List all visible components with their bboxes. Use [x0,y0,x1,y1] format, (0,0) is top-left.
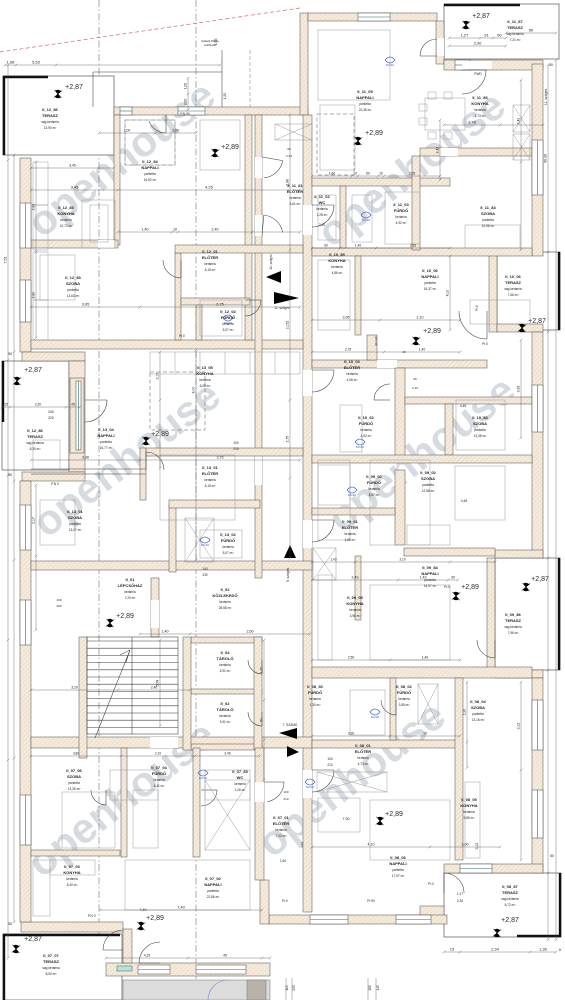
svg-text:50: 50 [8,922,12,926]
svg-text:Pr.0: Pr.0 [282,899,288,903]
svg-text:1,60: 1,60 [329,172,336,176]
svg-text:1,27: 1,27 [457,892,463,896]
svg-text:II_09_02: II_09_02 [420,470,436,475]
svg-text:TERASZ: TERASZ [43,959,60,964]
svg-text:Pr.0: Pr.0 [179,334,185,338]
svg-text:Pr.0: Pr.0 [428,882,434,886]
svg-text:9,86 m²: 9,86 m² [464,816,475,820]
svg-text:KONYHA: KONYHA [63,870,80,875]
svg-text:parketta: parketta [472,712,484,716]
svg-text:II_07_06: II_07_06 [66,768,82,773]
svg-text:2,42: 2,42 [436,147,440,154]
svg-text:3,30: 3,30 [348,732,355,736]
svg-text:NAPPALI: NAPPALI [141,165,158,170]
svg-text:10,73 m²: 10,73 m² [60,224,73,228]
svg-text:II_09_86: II_09_86 [505,612,521,617]
svg-text:3,78: 3,78 [468,120,477,125]
svg-text:FÜRDŐ: FÜRDŐ [394,208,408,213]
svg-text:4,45: 4,45 [460,404,467,408]
svg-text:100: 100 [327,757,333,761]
svg-text:4,73 m²: 4,73 m² [475,114,486,118]
svg-text:II_02: II_02 [221,587,231,592]
svg-text:3,95: 3,95 [82,302,91,307]
svg-text:kerámia: kerámia [289,196,301,200]
svg-text:parketta: parketta [67,288,79,292]
svg-text:2,75: 2,75 [217,456,224,460]
svg-text:+2,87: +2,87 [24,936,42,943]
svg-text:P.N 0: P.N 0 [51,482,59,486]
svg-text:parketta: parketta [482,218,494,222]
svg-text:SZOBA: SZOBA [421,476,435,481]
svg-text:sag.kerámia: sag.kerámia [506,32,524,36]
svg-text:50: 50 [497,33,502,38]
svg-text:II_11_02: II_11_02 [314,194,330,199]
svg-text:140: 140 [202,567,208,571]
svg-text:22,86 m²: 22,86 m² [207,895,220,899]
svg-text:ELŐTÉR: ELŐTÉR [202,471,218,476]
svg-text:kerámia: kerámia [463,810,475,814]
svg-text:II_09_84: II_09_84 [422,565,438,570]
svg-text:5,61 m²: 5,61 m² [290,202,301,206]
svg-text:KONYHA: KONYHA [460,803,477,808]
svg-text:3,93: 3,93 [517,386,521,393]
svg-text:kerámia: kerámia [316,207,328,211]
svg-text:kerámia: kerámia [219,714,231,718]
svg-text:10: 10 [379,172,383,176]
svg-text:22,36 m²: 22,36 m² [359,108,372,112]
svg-text:2,75: 2,75 [216,302,225,307]
svg-text:II_11_87: II_11_87 [507,19,523,24]
svg-text:+2,87: +2,87 [531,576,549,583]
svg-text:kerámia: kerámia [204,478,216,482]
svg-text:II_13_02: II_13_02 [220,532,236,537]
svg-text:SZOBA: SZOBA [67,774,81,779]
svg-text:4,06 m²: 4,06 m² [347,378,358,382]
svg-text:kerámia: kerámia [199,378,211,382]
svg-text:13,63 m²: 13,63 m² [67,294,80,298]
svg-text:II_10_06: II_10_06 [505,274,521,279]
svg-text:ELŐTÉR: ELŐTÉR [355,749,371,754]
svg-text:+2,87: +2,87 [528,318,546,325]
svg-text:NAPPALI: NAPPALI [204,882,221,887]
svg-text:4,67 m²: 4,67 m² [369,493,380,497]
svg-text:9. szöges: 9. szöges [286,567,290,582]
svg-text:II_13_05: II_13_05 [197,365,213,370]
svg-text:II_13_04: II_13_04 [98,427,114,432]
svg-text:SZOBA: SZOBA [68,515,82,520]
svg-text:II_12_83: II_12_83 [58,205,74,210]
svg-text:3,10: 3,10 [399,558,405,562]
svg-text:1,00: 1,00 [184,83,188,89]
svg-text:2,43: 2,43 [352,576,359,580]
svg-text:II_04: II_04 [221,650,231,655]
svg-text:+2,89: +2,89 [221,144,239,151]
svg-text:kerámia: kerámia [153,778,165,782]
svg-text:3,96: 3,96 [82,456,89,460]
svg-text:45: 45 [71,403,75,407]
svg-text:2,10: 2,10 [412,386,418,390]
svg-text:60x40: 60x40 [306,785,315,789]
svg-text:kerámia: kerámia [474,108,486,112]
svg-text:LÉPCSŐHÁZ: LÉPCSŐHÁZ [118,583,143,588]
svg-text:3,80: 3,80 [73,752,79,756]
svg-text:II_08_30: II_08_30 [307,684,323,689]
svg-text:2,55: 2,55 [410,244,416,248]
svg-text:13,26 m²: 13,26 m² [68,787,81,791]
svg-text:kerámia: kerámia [346,372,358,376]
svg-text:1,40: 1,40 [162,630,169,634]
svg-text:NAPPALI: NAPPALI [97,433,114,438]
svg-text:+2,89: +2,89 [423,328,441,335]
svg-text:50: 50 [8,352,12,356]
svg-text:10: 10 [353,172,357,176]
svg-text:7,02 m²: 7,02 m² [276,834,287,838]
svg-text:II_08_06: II_08_06 [390,855,406,860]
svg-text:SZOBA: SZOBA [473,421,487,426]
svg-text:90 240: 90 240 [374,336,378,346]
svg-text:sag.kerámia: sag.kerámia [41,120,59,124]
svg-text:SZOBA: SZOBA [471,705,485,710]
svg-text:115: 115 [285,985,289,990]
svg-text:2,55: 2,55 [409,172,416,176]
svg-text:3,12: 3,12 [517,723,521,730]
svg-text:2,34: 2,34 [491,947,500,952]
svg-text:233: 233 [292,985,296,991]
svg-text:2,10: 2,10 [155,752,161,756]
svg-text:16,37 m²: 16,37 m² [424,287,437,291]
svg-text:2,00: 2,00 [184,99,188,105]
svg-text:50: 50 [529,28,534,33]
svg-text:+2,87: +2,87 [24,367,42,374]
svg-text:7,40: 7,40 [177,905,186,910]
svg-text:II_10_62: II_10_62 [358,415,374,420]
svg-text:2,75: 2,75 [286,436,290,443]
svg-text:17,97 m²: 17,97 m² [392,874,405,878]
svg-text:II_07_07: II_07_07 [43,953,59,958]
svg-text:3,91 m²: 3,91 m² [220,669,231,673]
svg-text:P.N 0': P.N 0' [88,914,97,918]
svg-text:1,40: 1,40 [419,348,426,352]
svg-text:II_08_02: II_08_02 [396,684,412,689]
svg-text:2,42: 2,42 [517,118,521,125]
svg-text:NAPPALI: NAPPALI [421,274,438,279]
svg-text:II_08_04: II_08_04 [470,699,486,704]
svg-text:SZOBA: SZOBA [481,211,495,216]
svg-text:220: 220 [48,416,54,420]
svg-text:4,22: 4,22 [300,842,304,848]
svg-text:II_10_06: II_10_06 [422,268,438,273]
svg-text:4,25: 4,25 [205,185,214,190]
svg-text:II_07_02: II_07_02 [205,876,221,881]
svg-text:TÁROLÓ: TÁROLÓ [217,707,234,712]
svg-text:FÜRDŐ: FÜRDŐ [221,315,235,320]
svg-text:kerámia: kerámia [60,218,72,222]
svg-text:3,96 m²: 3,96 m² [350,614,361,618]
svg-text:1,00: 1,00 [124,129,131,133]
svg-text:kerámia: kerámia [309,697,321,701]
svg-text:13,90 m²: 13,90 m² [44,126,57,130]
svg-text:Pr.0: Pr.0 [475,305,479,311]
svg-text:II_08_87: II_08_87 [502,884,518,889]
svg-text:100: 100 [283,790,288,794]
svg-text:60x40: 60x40 [371,715,380,719]
svg-text:sag.kerámia: sag.kerámia [42,966,60,970]
svg-text:kerámia: kerámia [360,428,372,432]
svg-text:NAPPALI: NAPPALI [356,95,373,100]
svg-text:12,88 m²: 12,88 m² [422,489,435,493]
svg-text:7,21 m²: 7,21 m² [510,38,521,42]
svg-text:sag.kerámia: sag.kerámia [504,287,522,291]
svg-text:2,46: 2,46 [224,752,230,756]
svg-text:1,26 m²: 1,26 m² [235,788,246,792]
svg-text:II_11_03: II_11_03 [393,202,409,207]
svg-text:II_12_84: II_12_84 [142,159,158,164]
svg-text:kerámia: kerámia [204,262,216,266]
svg-text:kerámia: kerámia [219,600,231,604]
svg-text:3,95: 3,95 [343,316,350,320]
svg-text:+2,89: +2,89 [146,915,164,922]
svg-text:45: 45 [223,954,227,958]
svg-text:1,43: 1,43 [420,576,427,580]
svg-text:II_13_01: II_13_01 [67,509,83,514]
svg-text:5,07 m²: 5,07 m² [223,328,234,332]
svg-text:8,72 m²: 8,72 m² [505,903,516,907]
svg-text:parketta: parketta [144,172,156,176]
svg-text:II_07_01: II_07_01 [273,815,289,820]
svg-text:3,12: 3,12 [475,843,479,850]
svg-text:FÜRDŐ: FÜRDŐ [308,690,322,695]
svg-text:6: 6 [559,948,561,952]
svg-text:FÜRDŐ: FÜRDŐ [359,421,373,426]
svg-text:5,07 m²: 5,07 m² [223,551,234,555]
svg-text:kerámia: kerámia [331,265,343,269]
svg-text:II_07_65: II_07_65 [232,769,248,774]
svg-text:TERASZ: TERASZ [505,280,522,285]
svg-text:60: 60 [366,172,370,176]
svg-text:8,30 m²: 8,30 m² [30,447,41,451]
svg-text:parketta: parketta [68,781,80,785]
svg-text:WC: WC [319,200,326,205]
svg-text:parketta: parketta [359,102,371,106]
svg-text:30: 30 [451,576,455,580]
svg-text:4,41 m²: 4,41 m² [154,784,165,788]
svg-text:90,30: 90,30 [544,154,548,163]
svg-text:6,15 m²: 6,15 m² [205,484,216,488]
svg-text:1,08: 1,08 [7,60,16,65]
svg-text:4,52 m²: 4,52 m² [361,434,372,438]
svg-text:KONYHA: KONYHA [328,258,345,263]
svg-text:II_12_86: II_12_86 [42,107,58,112]
svg-text:7,96 m²: 7,96 m² [508,631,519,635]
svg-text:2,46: 2,46 [151,686,158,690]
svg-text:TERASZ: TERASZ [505,618,522,623]
svg-text:230: 230 [202,573,208,577]
svg-text:1,40: 1,40 [422,656,429,660]
svg-text:parketta: parketta [474,428,486,432]
svg-text:II_13_01: II_13_01 [202,465,218,470]
svg-text:100: 100 [368,985,372,991]
svg-text:TERASZ: TERASZ [27,434,44,439]
svg-text:TERASZ: TERASZ [42,113,59,118]
svg-text:KONYHA: KONYHA [346,601,363,606]
svg-text:+2,87: +2,87 [472,13,490,20]
svg-text:210: 210 [283,797,288,801]
svg-text:2,17: 2,17 [156,373,160,380]
svg-text:parketta: parketta [392,868,404,872]
svg-text:7,20 m²: 7,20 m² [125,596,136,600]
svg-text:4,92 m²: 4,92 m² [396,221,407,225]
svg-text:240: 240 [48,410,54,414]
svg-text:13,48 m²: 13,48 m² [474,434,487,438]
svg-text:12. szöges: 12. szöges [269,254,273,270]
svg-text:3,20: 3,20 [71,686,78,690]
svg-text:3,00: 3,00 [462,843,469,847]
svg-text:1,60: 1,60 [280,859,286,863]
svg-text:FÜRDŐ: FÜRDŐ [152,771,166,776]
svg-text:2,20: 2,20 [35,403,42,407]
svg-text:1,40: 1,40 [142,228,149,232]
svg-text:2,98: 2,98 [286,179,290,186]
svg-text:8,50 m²: 8,50 m² [46,972,57,976]
svg-text:10,96 m²: 10,96 m² [482,224,495,228]
svg-text:2,10: 2,10 [417,316,424,320]
svg-text:+2,89: +2,89 [365,130,383,137]
svg-text:7,51: 7,51 [4,257,8,264]
svg-text:140: 140 [376,985,380,991]
svg-text:50: 50 [549,63,553,67]
svg-text:2,93: 2,93 [286,154,292,158]
svg-text:FÜRDŐ: FÜRDŐ [397,690,411,695]
svg-text:parketta: parketta [100,440,112,444]
svg-text:60x40: 60x40 [201,543,210,547]
svg-text:2,50: 2,50 [247,630,254,634]
svg-text:210: 210 [327,763,333,767]
svg-text:28,58 m²: 28,58 m² [219,606,232,610]
svg-text:1,50: 1,50 [223,93,227,99]
svg-text:10,52: 10,52 [286,321,290,330]
svg-text:4,10: 4,10 [368,843,375,847]
svg-text:P.N 90: P.N 90 [180,112,190,116]
svg-text:II_11_84: II_11_84 [480,205,496,210]
svg-text:KONYHA: KONYHA [57,211,74,216]
svg-text:II_11_05: II_11_05 [357,89,373,94]
svg-text:KÖZLEKEDŐ: KÖZLEKEDŐ [212,593,237,598]
svg-text:50: 50 [8,473,12,477]
svg-text:+2,87: +2,87 [501,917,519,924]
svg-text:parketta: parketta [424,281,436,285]
svg-text:II_12_01: II_12_01 [202,249,218,254]
svg-text:1,28 m²: 1,28 m² [317,213,328,217]
svg-text:1,36: 1,36 [539,947,548,952]
svg-text:II_09_05: II_09_05 [347,595,363,600]
svg-text:II_08_01: II_08_01 [355,743,371,748]
svg-text:2,75: 2,75 [345,348,352,352]
svg-text:kerámia: kerámia [275,828,287,832]
svg-text:4,00: 4,00 [192,387,196,394]
svg-text:Pr.0: Pr.0 [444,585,450,589]
svg-text:15: 15 [4,403,8,407]
svg-text:II_11_81: II_11_81 [287,183,303,188]
svg-text:60: 60 [287,147,291,151]
svg-text:5,53: 5,53 [32,60,41,65]
svg-text:parketta: parketta [207,889,219,893]
svg-text:16,97 m²: 16,97 m² [424,584,437,588]
svg-text:1,27: 1,27 [461,33,470,38]
svg-text:7,40: 7,40 [140,908,147,912]
svg-text:2,40: 2,40 [212,228,219,232]
svg-text:7,30: 7,30 [343,817,350,821]
svg-text:ELŐTÉR: ELŐTÉR [344,365,360,370]
svg-text:3,45: 3,45 [69,164,76,168]
svg-text:1,40: 1,40 [355,244,361,248]
svg-text:kerámia: kerámia [124,590,136,594]
svg-text:4,00: 4,00 [446,290,450,297]
svg-text:10: 10 [173,228,177,232]
svg-text:NAPPALI: NAPPALI [389,861,406,866]
svg-text:3,55 m²: 3,55 m² [399,703,410,707]
svg-text:II_01: II_01 [126,577,136,582]
svg-text:2,30: 2,30 [457,899,463,903]
svg-text:100: 100 [233,441,239,445]
svg-text:KONYHA: KONYHA [196,371,213,376]
svg-text:10: 10 [423,732,427,736]
svg-text:+2,87: +2,87 [65,84,83,91]
svg-text:kerámia: kerámia [344,532,356,536]
svg-text:kerámia: kerámia [66,877,78,881]
svg-text:II_11_86: II_11_86 [472,95,488,100]
svg-text:+2,89: +2,89 [461,584,479,591]
svg-text:60: 60 [413,377,417,381]
svg-text:3,45: 3,45 [71,185,80,190]
svg-text:13,16 m²: 13,16 m² [472,718,485,722]
svg-text:60x40: 60x40 [348,493,357,497]
svg-text:kerámia: kerámia [398,697,410,701]
svg-text:13,07 m²: 13,07 m² [69,528,82,532]
svg-text:60x40: 60x40 [362,218,371,222]
svg-text:ELŐTÉR: ELŐTÉR [342,525,358,530]
svg-text:2,17: 2,17 [32,517,36,524]
svg-text:7. SZÁMÚ: 7. SZÁMÚ [283,722,298,727]
svg-text:1,30 m²: 1,30 m² [310,703,321,707]
svg-text:parketta: parketta [422,483,434,487]
svg-text:kerámia: kerámia [395,215,407,219]
svg-text:2,00: 2,00 [172,129,179,133]
svg-text:sag.kerámia: sag.kerámia [504,625,522,629]
svg-text:4,73 m²: 4,73 m² [358,762,369,766]
svg-text:11. szöges: 11. szöges [544,89,548,105]
svg-text:FÜRDŐ: FÜRDŐ [221,538,235,543]
svg-text:15: 15 [450,947,455,952]
svg-text:4,86 m²: 4,86 m² [332,271,343,275]
svg-text:II_02: II_02 [221,701,231,706]
svg-text:6,08 m²: 6,08 m² [200,384,211,388]
svg-text:200: 200 [56,604,61,608]
svg-text:kerámia: kerámia [368,487,380,491]
svg-text:4,45: 4,45 [461,499,468,503]
svg-text:ELŐTÉR: ELŐTÉR [202,255,218,260]
svg-text:parketta: parketta [69,522,81,526]
svg-text:2,50: 2,50 [348,656,355,660]
svg-text:II_12_86: II_12_86 [27,428,43,433]
svg-text:Pr.0: Pr.0 [482,342,488,346]
svg-text:16,92 m²: 16,92 m² [144,178,157,182]
svg-text:60x40: 60x40 [199,776,208,780]
svg-text:2,10: 2,10 [319,223,325,227]
svg-text:91: 91 [484,33,489,38]
svg-text:II_08_05: II_08_05 [461,797,477,802]
svg-text:4,25: 4,25 [144,954,151,958]
svg-text:kerámia: kerámia [222,545,234,549]
